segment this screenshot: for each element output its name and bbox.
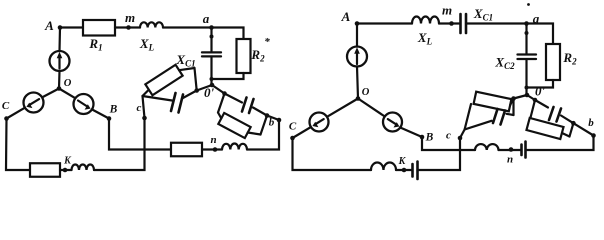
wire to 0' (197, 85, 212, 91)
source phase B (circle with arrow) (74, 94, 94, 114)
svg-text:C: C (289, 121, 297, 133)
right bar (261, 116, 268, 135)
junction dot (511, 96, 516, 101)
node B right (420, 135, 425, 140)
lower rail links (218, 113, 221, 119)
wire to 0' (514, 95, 528, 99)
svg-text:c: c (137, 102, 142, 114)
inductor bottom right (371, 163, 396, 170)
left bar (465, 104, 471, 130)
wire a down (525, 24, 527, 54)
svg-text:XC1: XC1 (175, 52, 195, 69)
lower rail links (562, 133, 570, 137)
wire R1 to m (115, 26, 129, 28)
junction dot (222, 91, 227, 96)
capacitor plates (171, 93, 176, 111)
source phase A (circle with up arrow) (50, 51, 70, 71)
wire a to R2 (212, 28, 244, 40)
resistor R2 (237, 39, 251, 73)
wire lead from c (460, 130, 465, 139)
rail to right bar (179, 68, 194, 70)
wire XC1 to a (466, 22, 527, 24)
node O right (356, 96, 361, 101)
load arm c to 0' (R parallel C) (143, 65, 213, 118)
capacitor plates (549, 107, 554, 120)
wire B down and right (109, 119, 171, 150)
svg-text:B: B (425, 132, 434, 144)
capacitor plates (493, 109, 498, 123)
wire inductor to K right (396, 169, 404, 171)
svg-text:m: m (125, 10, 135, 25)
inductor line C (72, 165, 95, 171)
dot above a (527, 3, 530, 6)
wire n to capacitor (511, 149, 522, 151)
svg-text:a: a (533, 11, 540, 26)
junction dot (533, 98, 538, 103)
capacitor line B right (520, 145, 523, 156)
node n right (509, 147, 514, 152)
wire to b (267, 116, 279, 121)
junction dot (525, 86, 529, 90)
source phase C right (310, 113, 329, 132)
wire source B to node B right (400, 128, 422, 138)
node A (58, 25, 63, 30)
right bar (570, 123, 574, 136)
node m (126, 25, 131, 30)
node 0' (210, 83, 215, 88)
node K right (402, 168, 407, 173)
resistor bottom line C (30, 163, 60, 177)
wire A to R1 (60, 26, 83, 28)
svg-text:m: m (442, 3, 452, 18)
left bar (529, 100, 535, 124)
svg-text:b: b (588, 117, 594, 129)
wire to b (573, 123, 593, 135)
node c (142, 116, 147, 121)
wire a to R2 right (527, 24, 554, 45)
source phase B right (383, 113, 402, 132)
node B (107, 116, 112, 121)
left bar (218, 94, 225, 113)
svg-text:n: n (507, 154, 513, 166)
svg-text:R1: R1 (88, 36, 102, 53)
svg-text:O: O (64, 78, 72, 89)
node n (213, 147, 218, 152)
wire m to XC1 (453, 22, 460, 24)
svg-text:b: b (269, 117, 275, 129)
svg-text:K: K (63, 156, 72, 167)
wire B down and right (422, 137, 475, 150)
svg-text:a: a (203, 11, 210, 26)
junction dot (265, 113, 270, 118)
svg-text:XL: XL (139, 36, 155, 53)
bottom rail (capacitor rail) (143, 96, 173, 101)
wire a down to capacitor (210, 28, 212, 52)
load arm c to 0' right (R parallel C) (460, 92, 527, 138)
source phase A right (347, 47, 367, 67)
svg-text:*: * (264, 36, 270, 48)
wire source A to O (58, 71, 61, 89)
wire lead from 0' (212, 85, 225, 94)
wire n to inductor (215, 148, 222, 150)
node C (4, 116, 9, 121)
wire lead from 0' (527, 95, 535, 100)
inductor XL (140, 22, 163, 27)
junction dot below a (210, 35, 214, 39)
node 0' right (525, 93, 530, 98)
node a right (524, 21, 529, 26)
wire resistor to K (60, 169, 65, 171)
node b right (591, 133, 596, 138)
svg-text:n: n (210, 134, 216, 146)
wire to c riser (94, 118, 145, 170)
node b (277, 118, 282, 123)
resistor box (tilted) (526, 118, 563, 139)
node A right (355, 21, 360, 26)
junction dot (571, 121, 576, 126)
wire O to source C (42, 89, 59, 98)
svg-text:A: A (44, 18, 54, 33)
junction dot below a right (525, 31, 529, 35)
inductor line B (222, 144, 247, 150)
wire O to source B (59, 89, 75, 99)
resistor box (tilted) (145, 65, 182, 96)
right bar (195, 68, 197, 91)
node a (209, 25, 214, 30)
junction dot R2 bottom (210, 77, 214, 81)
node K (63, 168, 68, 173)
wire O to source C right (327, 99, 358, 117)
wire source C to node C right (293, 127, 311, 138)
wire resistor to n (202, 148, 215, 150)
rail to right bar (510, 99, 513, 106)
wire R2 to 0' right (527, 80, 554, 88)
svg-text:O: O (362, 87, 370, 98)
svg-text:K: K (398, 156, 407, 167)
wire capacitor to b right (526, 136, 594, 151)
capacitor XC1 (202, 51, 221, 53)
node C right (290, 136, 295, 141)
capacitor bottom right (411, 164, 414, 177)
wire inductor to n right (499, 149, 512, 151)
resistor box (tilted) (474, 92, 512, 112)
wire inductor to b (247, 120, 279, 150)
svg-text:0': 0' (204, 85, 215, 100)
wire XL to a (163, 26, 212, 28)
wire source to O right (357, 67, 358, 99)
wire XC2 to 0' (525, 60, 527, 96)
wire m to XL (129, 26, 141, 28)
capacitor plates (242, 98, 247, 112)
inductor line B right (475, 144, 499, 150)
svg-text:R2: R2 (250, 47, 265, 64)
svg-text:A: A (341, 9, 351, 24)
junction dot (194, 88, 199, 93)
wire R2 to 0' (212, 73, 244, 79)
wire O to source B right (358, 99, 385, 117)
resistor R2 right (546, 44, 560, 80)
node O (57, 86, 62, 91)
upper rail (capacitor rail) (535, 100, 548, 108)
load arm 0' to b right (C parallel R) (526, 95, 593, 139)
load arm 0' to b (C parallel R) (212, 85, 279, 138)
wire source B to node B (92, 109, 109, 118)
resistor box (tilted) (218, 113, 250, 138)
source phase C (circle with arrow) (24, 93, 44, 113)
wire A to XL (357, 22, 412, 24)
wire A to source (58, 28, 61, 52)
svg-text:R2: R2 (562, 50, 577, 67)
wire XL to m (439, 22, 453, 24)
inductor XL right (412, 17, 439, 24)
resistor R1 (83, 20, 115, 36)
wire K to capacitor (404, 169, 413, 171)
node c right (458, 136, 463, 141)
wire A to source right (356, 24, 358, 47)
svg-text:XC1: XC1 (473, 6, 493, 23)
capacitor XC2 (518, 53, 537, 55)
svg-text:C: C (2, 100, 10, 112)
wire C down and along bottom (6, 119, 30, 171)
wire C down and along bottom right (293, 138, 372, 170)
capacitor XC1 (series) (459, 14, 462, 33)
wire capacitor to c riser right (418, 138, 461, 170)
right bar (512, 99, 514, 116)
bottom rail (465, 121, 492, 130)
wire K to inductor (65, 169, 72, 171)
svg-text:XL: XL (417, 30, 433, 47)
svg-text:c: c (446, 130, 451, 142)
svg-text:B: B (109, 104, 118, 116)
svg-text:XC2: XC2 (494, 55, 515, 72)
left bar (143, 90, 150, 97)
wire source C to node C (7, 108, 25, 119)
resistor line B (171, 143, 202, 157)
svg-text:0': 0' (535, 84, 546, 99)
node m right (449, 21, 454, 26)
wire lead from c (143, 96, 145, 118)
wire capacitor to 0' (210, 57, 212, 85)
upper rail (capacitor rail) (225, 94, 243, 103)
